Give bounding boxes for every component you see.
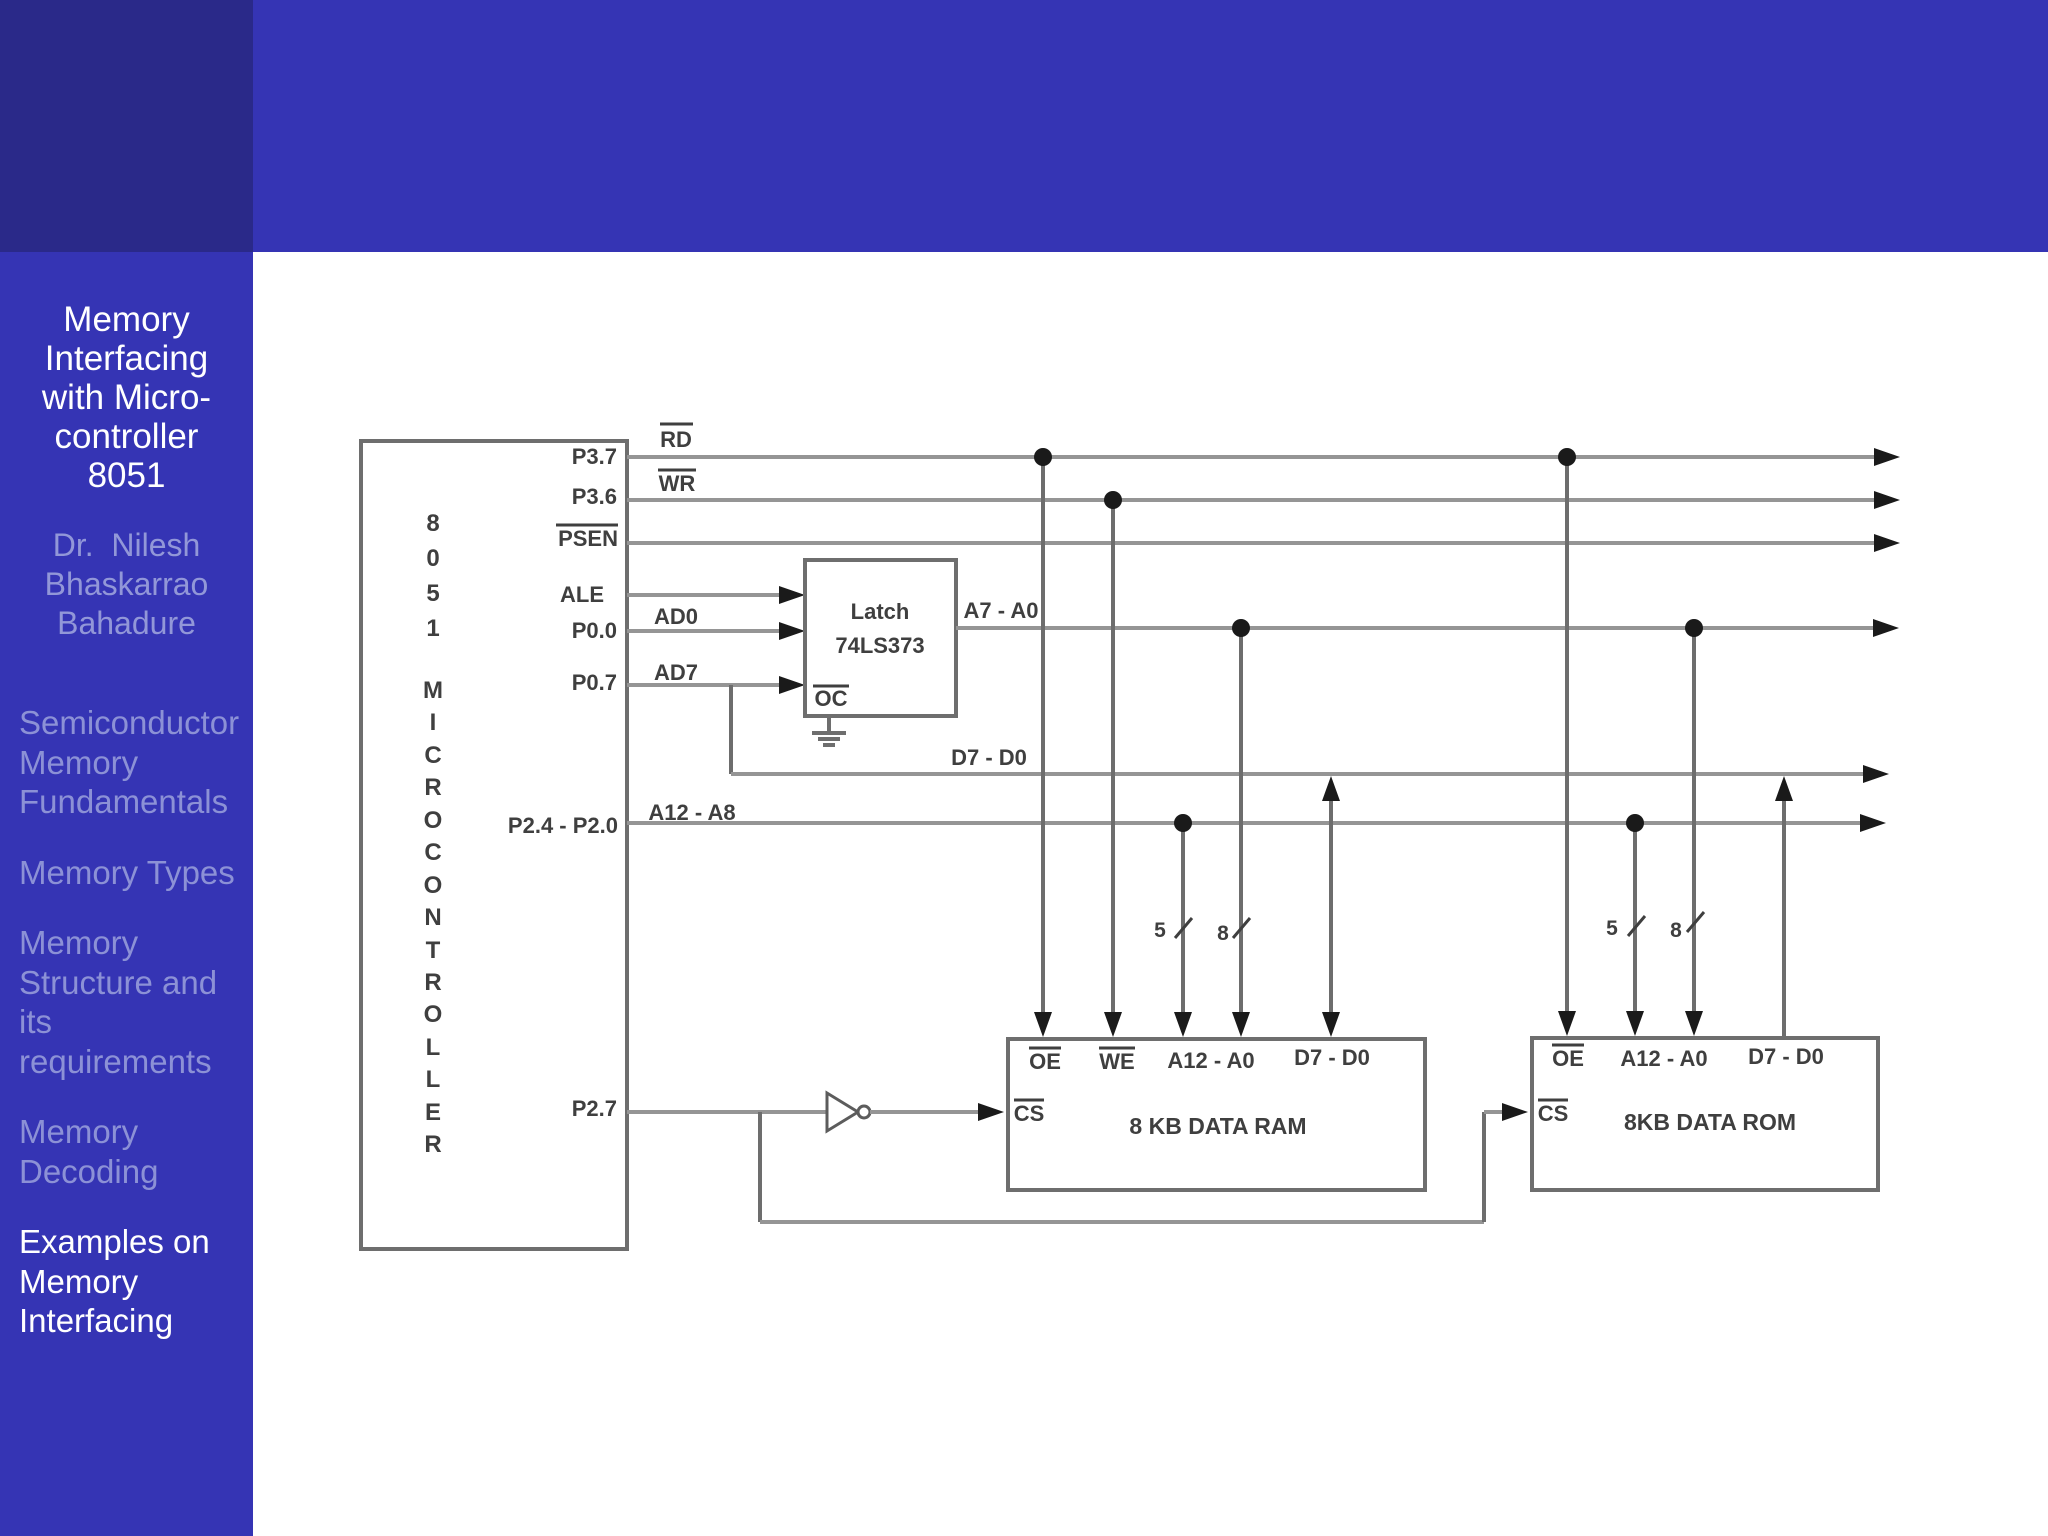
wire AD7 to latch xyxy=(627,683,782,687)
wire RD to ROM OE xyxy=(1565,457,1569,1014)
wire AD0 to latch xyxy=(627,629,782,633)
svg-text:8: 8 xyxy=(426,510,439,537)
svg-text:AD7: AD7 xyxy=(654,660,698,685)
wire A12-A8 to RAM xyxy=(1181,823,1185,1015)
svg-text:5: 5 xyxy=(1154,919,1166,942)
arrow down into RAM data xyxy=(1322,1012,1340,1037)
svg-text:OC: OC xyxy=(815,686,848,711)
svg-text:N: N xyxy=(424,904,441,931)
latch U2 74LS373 xyxy=(805,560,956,716)
top bar xyxy=(253,0,2048,252)
arrow into ROM OE xyxy=(1558,1011,1576,1036)
svg-text:M: M xyxy=(423,677,443,704)
wire A7-A0 bus from latch xyxy=(956,626,1875,630)
wire into ROM CS xyxy=(1484,1110,1505,1114)
inverter NOT gate xyxy=(827,1093,858,1131)
8051 vertical label MICROCONTROLLER xyxy=(423,677,443,1158)
junction RD-ROM xyxy=(1558,448,1576,466)
svg-text:A7 - A0: A7 - A0 xyxy=(964,598,1039,623)
svg-text:I: I xyxy=(430,709,437,736)
svg-text:R: R xyxy=(424,969,441,996)
wire ALE to latch xyxy=(627,593,782,597)
svg-text:CS: CS xyxy=(1538,1101,1569,1126)
junction A12A8-RAM xyxy=(1174,814,1192,832)
junction WR-RAM xyxy=(1104,491,1122,509)
wire A12-A8 bus xyxy=(627,821,1862,825)
svg-text:L: L xyxy=(426,1034,441,1061)
svg-text:P3.6: P3.6 xyxy=(572,484,617,509)
svg-text:PSEN: PSEN xyxy=(558,526,618,551)
RAM chip U3 xyxy=(1008,1039,1425,1190)
8051 microcontroller U1 xyxy=(361,441,627,1249)
8051 vertical label 8051 xyxy=(426,510,439,642)
svg-text:WR: WR xyxy=(659,471,696,496)
svg-text:C: C xyxy=(424,742,441,769)
svg-text:8 KB DATA RAM: 8 KB DATA RAM xyxy=(1129,1113,1306,1139)
svg-text:D7 - D0: D7 - D0 xyxy=(951,745,1027,770)
arrow A7-A0 into ROM xyxy=(1685,1011,1703,1036)
wire A7-A0 to RAM xyxy=(1239,628,1243,1015)
wire RD to RAM OE xyxy=(1041,457,1045,1015)
arrow A12-A8 into RAM xyxy=(1174,1012,1192,1037)
svg-text:T: T xyxy=(426,937,441,964)
svg-text:OE: OE xyxy=(1552,1046,1584,1071)
svg-text:O: O xyxy=(424,807,443,834)
ROM chip U4 xyxy=(1532,1038,1878,1190)
arrow A12-A8 into ROM xyxy=(1626,1011,1644,1036)
svg-text:RD: RD xyxy=(660,427,692,452)
arrow WR bus right xyxy=(1874,491,1900,509)
arrow A7-A0 right xyxy=(1873,619,1899,637)
arrow D7-D0 right xyxy=(1863,765,1889,783)
svg-text:A12 - A8: A12 - A8 xyxy=(648,800,735,825)
wire P2.7 to inverter xyxy=(627,1110,827,1114)
svg-text:ALE: ALE xyxy=(560,582,604,607)
junction A7A0-RAM xyxy=(1232,619,1250,637)
arrow RD bus right xyxy=(1874,448,1900,466)
svg-text:C: C xyxy=(424,839,441,866)
svg-text:O: O xyxy=(424,1001,443,1028)
sidebar xyxy=(0,252,253,1536)
svg-text:P0.7: P0.7 xyxy=(572,670,617,695)
junction A7A0-ROM xyxy=(1685,619,1703,637)
svg-text:74LS373: 74LS373 xyxy=(835,633,924,658)
wire D7-D0 to ROM bidirectional xyxy=(1782,788,1786,1040)
wire A7-A0 to ROM xyxy=(1692,628,1696,1014)
wire D7-D0 bus xyxy=(731,772,1865,776)
ground xyxy=(827,716,831,733)
arrow A7-A0 into RAM xyxy=(1232,1012,1250,1037)
svg-text:A12 - A0: A12 - A0 xyxy=(1620,1046,1707,1071)
arrow up to D7-D0 bus ROM side xyxy=(1775,776,1793,801)
svg-text:P0.0: P0.0 xyxy=(572,618,617,643)
svg-text:P2.4 - P2.0: P2.4 - P2.0 xyxy=(508,813,618,838)
svg-text:8: 8 xyxy=(1217,922,1229,945)
svg-text:R: R xyxy=(424,1131,441,1158)
svg-text:D7 - D0: D7 - D0 xyxy=(1748,1044,1824,1069)
svg-text:R: R xyxy=(424,774,441,801)
junction A12A8-ROM xyxy=(1626,814,1644,832)
wire branch bottom run xyxy=(760,1220,1484,1224)
svg-text:CS: CS xyxy=(1014,1101,1045,1126)
svg-text:5: 5 xyxy=(1606,917,1618,940)
arrow into ROM CS xyxy=(1502,1103,1528,1121)
svg-text:8KB DATA ROM: 8KB DATA ROM xyxy=(1624,1109,1796,1135)
top-left corner block xyxy=(0,0,253,252)
svg-text:AD0: AD0 xyxy=(654,604,698,629)
svg-text:L: L xyxy=(426,1066,441,1093)
arrow up to D7-D0 bus xyxy=(1322,776,1340,801)
wire inverter output to RAM CS xyxy=(870,1110,981,1114)
arrow A12-A8 right xyxy=(1860,814,1886,832)
wire branch up to ROM CS xyxy=(1482,1112,1486,1222)
svg-text:P3.7: P3.7 xyxy=(572,444,617,469)
wire RD bus xyxy=(627,455,1876,459)
arrow into RAM OE xyxy=(1034,1012,1052,1037)
wire PSEN bus xyxy=(627,541,1876,545)
svg-text:1: 1 xyxy=(426,615,439,642)
svg-text:8: 8 xyxy=(1670,919,1682,942)
svg-text:WE: WE xyxy=(1099,1049,1134,1074)
arrow PSEN bus right xyxy=(1874,534,1900,552)
svg-text:OE: OE xyxy=(1029,1049,1061,1074)
arrow into RAM CS xyxy=(978,1103,1004,1121)
wire P2.7 branch down xyxy=(758,1112,762,1222)
junction RD-RAM xyxy=(1034,448,1052,466)
svg-text:Latch: Latch xyxy=(851,599,910,624)
svg-text:5: 5 xyxy=(426,580,439,607)
arrow AD0 into latch xyxy=(779,622,805,640)
svg-text:0: 0 xyxy=(426,545,439,572)
wire WR to RAM WE xyxy=(1111,500,1115,1015)
svg-text:A12 - A0: A12 - A0 xyxy=(1167,1048,1254,1073)
wire A12-A8 to ROM xyxy=(1633,823,1637,1014)
wire WR bus xyxy=(627,498,1876,502)
svg-text:E: E xyxy=(425,1099,441,1126)
svg-text:D7 - D0: D7 - D0 xyxy=(1294,1045,1370,1070)
wire AD7 drop to D7-D0 xyxy=(729,685,733,774)
svg-text:O: O xyxy=(424,872,443,899)
wire D7-D0 to RAM bidirectional xyxy=(1329,788,1333,1015)
svg-text:P2.7: P2.7 xyxy=(572,1096,617,1121)
arrow AD7 into latch xyxy=(779,676,805,694)
arrow into RAM WE xyxy=(1104,1012,1122,1037)
arrow ALE into latch xyxy=(779,586,805,604)
